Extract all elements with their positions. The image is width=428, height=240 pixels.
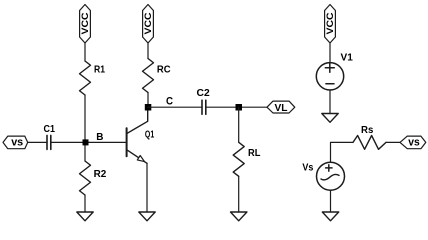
resistor RC	[143, 59, 154, 93]
ground (under RL)	[231, 212, 247, 221]
svg-text:C2: C2	[197, 87, 210, 99]
wire Q1 emitter to ground	[146, 163, 148, 212]
ground (under Vs)	[322, 212, 338, 221]
svg-text:VCC: VCC	[325, 12, 336, 34]
power flag VCC (over V1)	[325, 5, 337, 44]
svg-text:Vs: Vs	[302, 162, 313, 174]
svg-text:R2: R2	[94, 168, 107, 180]
wire Vs top to Rs	[331, 142, 354, 162]
svg-text:RC: RC	[157, 63, 171, 75]
port flag VL (output)	[267, 101, 295, 114]
power flag VCC (over R1)	[80, 5, 92, 44]
svg-text:VL: VL	[275, 102, 289, 114]
svg-text:C1: C1	[44, 123, 56, 135]
voltage source V1	[316, 63, 343, 90]
wire VCC flag to V1	[329, 43, 331, 63]
resistor R1	[80, 61, 91, 95]
wire VCC flag to RC	[147, 43, 149, 59]
wire RL to ground	[238, 176, 240, 212]
capacitor C1	[47, 135, 51, 149]
transistor Q1	[127, 110, 148, 163]
ground (under R2)	[77, 212, 93, 221]
svg-text:B: B	[96, 131, 104, 143]
svg-text:R1: R1	[94, 64, 105, 76]
wire vs flag to C1	[28, 141, 47, 143]
wire Vs bottom to ground	[330, 190, 332, 212]
wire RC to node C	[147, 93, 149, 108]
wire V1 to ground	[329, 90, 331, 114]
node B junction	[83, 139, 89, 145]
svg-text:V1: V1	[341, 52, 353, 64]
wire VCC flag to R1	[84, 43, 86, 61]
resistor RL	[233, 142, 244, 176]
resistor R2	[80, 161, 91, 195]
wire C1 to node B to Q1 base	[51, 141, 127, 143]
port flag vs (right)	[400, 136, 426, 149]
node C junction	[145, 104, 152, 111]
source Vs	[317, 162, 345, 190]
wire C2 to VL node	[206, 106, 267, 108]
node junction (RL / VL)	[236, 104, 243, 111]
svg-text:C: C	[166, 96, 173, 108]
wire node to RL	[238, 107, 240, 142]
wire R2 to ground	[84, 195, 86, 212]
svg-text:Q1: Q1	[145, 129, 155, 140]
wire Rs to vs flag	[386, 141, 400, 143]
svg-text:RL: RL	[248, 147, 261, 159]
svg-text:vs: vs	[408, 137, 420, 149]
svg-text:VCC: VCC	[143, 12, 154, 34]
resistor Rs	[353, 136, 386, 150]
port flag vs (input, left)	[3, 136, 28, 149]
svg-text:VCC: VCC	[80, 12, 91, 34]
power flag VCC (over RC)	[143, 5, 155, 44]
svg-text:Rs: Rs	[361, 124, 373, 136]
ground (under V1)	[322, 114, 338, 123]
svg-text:vs: vs	[11, 136, 23, 148]
wire R1 to node B to R2	[84, 95, 86, 161]
ground (under Q1 emitter)	[139, 212, 155, 221]
capacitor C2	[202, 100, 206, 114]
wire node C to C2	[148, 106, 202, 108]
